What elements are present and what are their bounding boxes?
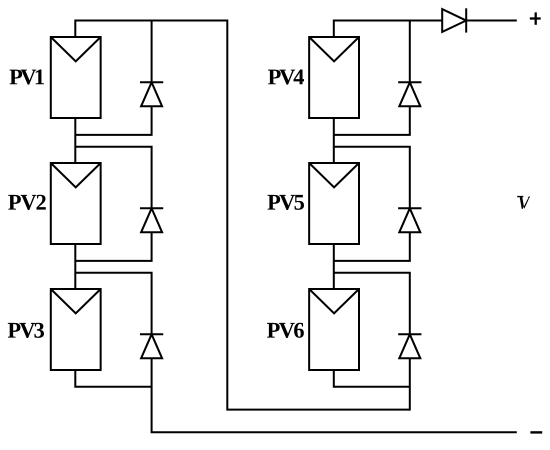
wire PV1 top stub, top-left rail, series return and bottom cross link [75, 21, 410, 410]
label PV1 [10, 69, 45, 84]
PV module PV1 [51, 37, 101, 118]
blocking diode [442, 8, 466, 32]
PV module PV3 [51, 289, 101, 370]
wire PV1-PV2 link [74, 118, 76, 163]
bypass diode D2 [140, 208, 163, 232]
wire D1 bottom lead and junction1 upper [75, 106, 151, 135]
wire junction2R lower and D6 top lead [334, 273, 410, 335]
wire D3 bottom lead and bottom rail [152, 358, 517, 432]
wire PV5-PV6 link [333, 244, 335, 289]
wire D2 bottom lead and junction2 upper [75, 232, 151, 261]
wire PV6 bottom stub [334, 370, 410, 387]
bypass diode D5 [398, 208, 421, 232]
label PV2 [8, 195, 46, 210]
node + terminal [530, 12, 541, 24]
label PV3 [8, 323, 44, 338]
label PV6 [267, 323, 304, 338]
wire PV4 top stub and top-right rail [334, 21, 442, 37]
wire PV2-PV3 link [74, 244, 76, 289]
wire D1 top lead [151, 21, 153, 83]
wire output lead [466, 20, 517, 22]
wire junction1 lower and D2 top lead [75, 147, 151, 209]
label PV5 [268, 195, 305, 210]
bypass diode D6 [398, 334, 421, 358]
bypass diode D1 [140, 82, 163, 106]
wire D4 bottom lead and junction1R upper [334, 106, 410, 135]
bypass diode D4 [398, 82, 421, 106]
wire D4 top lead [409, 21, 411, 83]
wire PV4-PV5 link [333, 118, 335, 163]
wire D6 bottom lead [409, 358, 411, 410]
bypass diode D3 [140, 334, 163, 358]
wire D5 bottom lead and junction2R upper [334, 232, 410, 261]
PV module PV4 [309, 37, 359, 118]
PV module PV5 [309, 163, 359, 244]
PV module PV6 [309, 289, 359, 370]
node - terminal [530, 431, 542, 433]
wire junction1R lower and D5 top lead [334, 147, 410, 209]
wire PV3 bottom stub [75, 370, 151, 387]
node V output voltage [517, 196, 530, 209]
wire junction2 lower and D3 top lead [75, 273, 151, 335]
label PV4 [268, 70, 304, 85]
PV module PV2 [51, 163, 101, 244]
